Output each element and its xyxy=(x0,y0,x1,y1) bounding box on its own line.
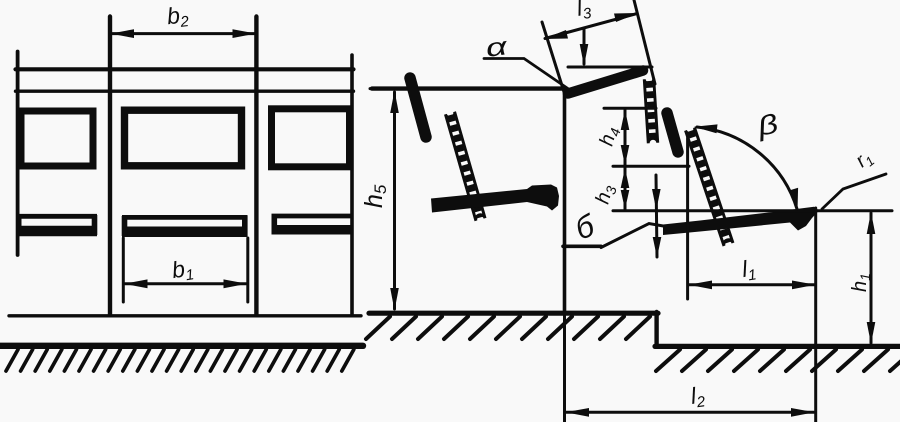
dimension b1 line with arrows xyxy=(125,282,246,285)
seat plane thin extension xyxy=(601,224,672,248)
dimension b2 line with arrows xyxy=(112,32,255,35)
dimension h4 extension top xyxy=(604,107,656,110)
dimension h3 line xyxy=(624,168,627,210)
backrest panel 3 xyxy=(272,109,350,167)
row A seat board xyxy=(431,185,559,213)
ground hatching (left view) xyxy=(6,350,354,372)
dimension h4/h3 middle extension xyxy=(613,165,689,168)
dimension b1 extension right xyxy=(246,238,249,302)
wire top rail lower xyxy=(16,89,354,92)
dimension h4 line xyxy=(624,110,627,165)
dimension l3 extension right xyxy=(634,0,655,84)
wire right outer upright xyxy=(350,55,354,314)
row C seat board xyxy=(663,207,819,235)
dimension l1 extension left xyxy=(686,138,689,299)
row B seat board (top right) xyxy=(568,71,643,94)
wire left outer upright xyxy=(16,52,20,256)
wire base line of left view xyxy=(9,314,361,317)
ground line (left view) xyxy=(0,343,363,349)
step profile: upper riser face xyxy=(563,88,567,313)
step profile: top platform xyxy=(372,86,566,90)
post left (b2 extension) xyxy=(108,17,112,315)
angle beta arc xyxy=(697,127,797,209)
seat board 3 xyxy=(272,215,354,234)
dimension h5 extension tick xyxy=(370,87,378,90)
angle alpha arrow tick xyxy=(583,28,586,64)
angle delta double arrow xyxy=(656,175,657,257)
backrest panel 2 xyxy=(125,110,242,166)
dimension l2 extension left xyxy=(563,313,566,422)
ground step riser xyxy=(654,312,658,345)
seat board 1 xyxy=(17,215,97,235)
dimension l2 extension right xyxy=(814,208,817,422)
dimension h5 line xyxy=(393,92,396,309)
dimension l3 line with arrows xyxy=(545,14,637,39)
angle alpha reference line xyxy=(568,66,652,69)
alpha leader xyxy=(484,59,570,91)
step profile: middle tread xyxy=(563,245,601,249)
row C backrest board (rung strip) xyxy=(685,127,733,246)
dimension h3 bottom extension xyxy=(613,209,892,212)
ground upper (right view) xyxy=(369,311,658,316)
ground hatching lower (right view) xyxy=(656,350,900,372)
radius r leader xyxy=(822,174,886,209)
wire top rail upper xyxy=(16,67,354,71)
post right (b2 extension) xyxy=(254,17,258,315)
backrest panel 1 xyxy=(21,111,93,166)
dimension l1 line xyxy=(689,283,814,286)
row A backrest support bar (solid) xyxy=(410,78,426,137)
dimension h1 line xyxy=(870,213,873,343)
row B backrest board (rung strip) xyxy=(644,79,657,144)
dimension l2 line xyxy=(566,411,814,414)
ground hatching upper (right view) xyxy=(366,317,650,340)
dimension b1 extension left xyxy=(122,238,125,302)
ground lower (right view) xyxy=(655,344,900,349)
row A backrest board (rung strip) xyxy=(445,112,485,221)
row B backrest support bar (solid) xyxy=(667,113,678,152)
dimension l3 extension left xyxy=(542,22,564,92)
seat board 2 xyxy=(122,216,248,236)
